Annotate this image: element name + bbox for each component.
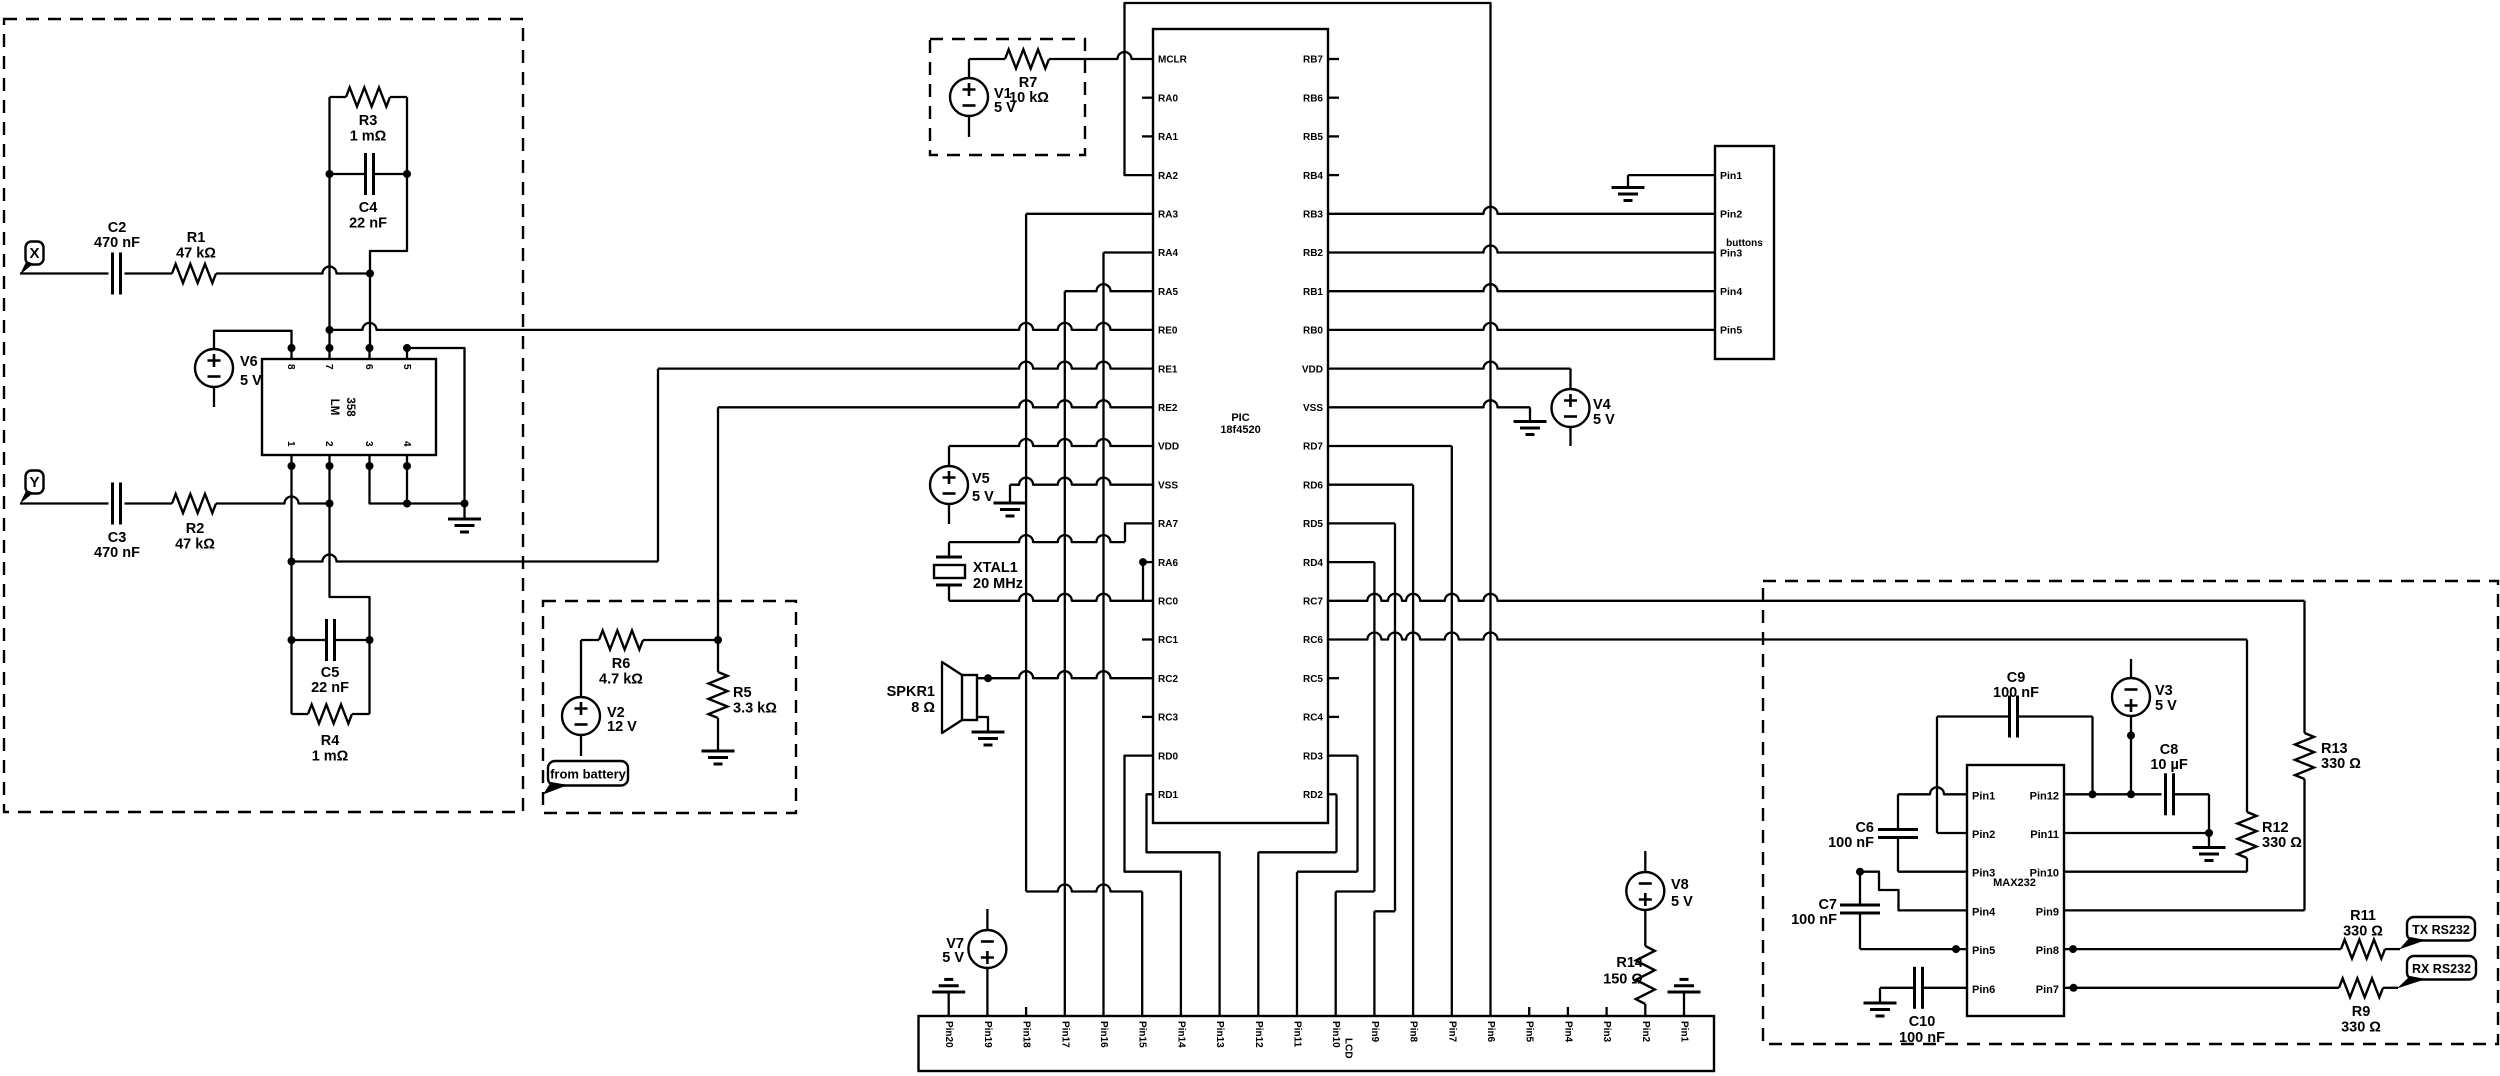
label V3 value [2155, 683, 2177, 714]
wire RD6 to LCD Pin8 [1328, 485, 1413, 1016]
label C3 value [94, 530, 140, 561]
capacitor C2 [113, 253, 121, 295]
svg-text:100 nF: 100 nF [1828, 835, 1874, 851]
svg-text:1 mΩ: 1 mΩ [350, 129, 387, 145]
svg-text:R2: R2 [186, 521, 205, 537]
svg-text:Pin15: Pin15 [1137, 1021, 1148, 1048]
resistor R13 [2295, 733, 2314, 779]
svg-text:Pin19: Pin19 [982, 1021, 993, 1048]
pin label RE2 (left) [1158, 403, 1178, 414]
svg-text:C7: C7 [1818, 897, 1837, 913]
pin label RC0 (left) [1158, 597, 1178, 608]
wire V7 top stub [986, 909, 988, 930]
svg-text:5: 5 [401, 364, 412, 370]
chip U3 MAX232 body [1967, 765, 2064, 1016]
svg-text:RE1: RE1 [1158, 364, 1178, 375]
label buttons [1726, 238, 1763, 249]
pin label LCD Pin5 [1524, 1021, 1535, 1043]
svg-text:RB4: RB4 [1303, 171, 1323, 182]
pin label RC6 (right) [1303, 635, 1323, 646]
op-amp pin 8 stub [285, 344, 296, 370]
label V1 value [994, 86, 1016, 116]
inverted ground LCD Pin20 [932, 979, 965, 1016]
pin label RB0 (right) [1303, 326, 1323, 337]
node RX RS232 flag [2397, 956, 2476, 989]
wire ground rail pins 3,4 [370, 466, 465, 504]
svg-text:RB2: RB2 [1303, 248, 1323, 259]
svg-text:2: 2 [323, 441, 334, 447]
svg-text:R13: R13 [2321, 741, 2348, 757]
pin stub RB7 [1328, 58, 1339, 60]
pin label RC3 (left) [1158, 713, 1178, 724]
wire C3 to R2 [125, 502, 173, 504]
wire RA5 to bus [1065, 284, 1153, 1016]
label LCD [1343, 1038, 1354, 1059]
wire V8 to R14 [1644, 910, 1646, 947]
wire C7 to MAX232 Pin5 [1860, 913, 1967, 949]
pin label LCD Pin11 [1292, 1021, 1303, 1048]
pin label LCD Pin10 [1330, 1021, 1341, 1048]
svg-text:8 Ω: 8 Ω [911, 700, 935, 716]
svg-text:LM: LM [328, 399, 340, 416]
node TX RS232 flag [2399, 917, 2475, 950]
pin label MAX232 Pin1 [1972, 790, 1995, 802]
label V8 value [1671, 877, 1693, 910]
svg-text:RB3: RB3 [1303, 210, 1323, 221]
pin label MAX232 Pin5 [1972, 945, 1995, 957]
wire net RE1 from op-amp pin1 [292, 362, 1154, 562]
junction C9/Pin12 [2089, 790, 2097, 798]
junction R3/C4 left [326, 170, 334, 178]
pin label MCLR (left) [1158, 55, 1188, 66]
speaker SPKR1 [942, 662, 977, 733]
pin label RA2 (left) [1158, 171, 1178, 182]
voltage source V3 [2112, 678, 2150, 716]
svg-text:330 Ω: 330 Ω [2262, 835, 2302, 851]
wire R2 to op-amp pin2 (hops pin1 leg) [216, 497, 330, 504]
pin label RD6 (right) [1303, 480, 1323, 491]
svg-text:PIC: PIC [1231, 412, 1249, 424]
svg-text:Pin12: Pin12 [1253, 1021, 1264, 1048]
svg-text:RD0: RD0 [1158, 751, 1178, 762]
wire V3 to Pin12 row [2130, 716, 2132, 794]
pin label LCD Pin7 [1446, 1021, 1457, 1043]
svg-text:R6: R6 [612, 656, 631, 672]
dashed boundary box (battery sense) [543, 601, 796, 813]
svg-text:5 V: 5 V [1671, 894, 1693, 910]
label R5 value [733, 685, 777, 717]
pin label VSS (left) [1158, 480, 1178, 491]
svg-text:V8: V8 [1671, 877, 1689, 893]
label C10 value [1899, 1014, 1945, 1046]
pin label MAX232 Pin4 [1972, 906, 1996, 918]
wire MAX232 Pin8 to R11 [2064, 948, 2341, 950]
wire C10 to MAX232 Pin6 [1923, 987, 1968, 989]
svg-text:10 kΩ: 10 kΩ [1009, 90, 1049, 106]
junction Pin8 [2069, 945, 2077, 953]
wire op-amp pin5 to ground drop [407, 348, 465, 504]
pin label LCD Pin8 [1408, 1021, 1419, 1043]
wire C7 top leg [1859, 872, 1861, 905]
svg-text:18f4520: 18f4520 [1220, 424, 1260, 436]
pin label RB6 (right) [1303, 93, 1323, 104]
inverted ground LCD Pin1 [1668, 979, 1701, 1016]
svg-text:RC3: RC3 [1158, 713, 1178, 724]
svg-text:10 µF: 10 µF [2150, 757, 2188, 773]
svg-text:V3: V3 [2155, 683, 2173, 699]
svg-text:RB6: RB6 [1303, 93, 1323, 104]
wire R1 to node (hops op-amp pin7 wire) [216, 267, 370, 274]
pin label buttons Pin2 [1720, 209, 1742, 221]
label C6 value [1828, 820, 1874, 851]
voltage source V4 [1552, 389, 1590, 427]
wire VDD-left to V5 [949, 439, 1153, 466]
label R7 value [1009, 75, 1049, 106]
svg-text:RD3: RD3 [1303, 751, 1323, 762]
svg-text:RA3: RA3 [1158, 210, 1178, 221]
label R3 value [350, 113, 387, 145]
resistor R14 [1636, 946, 1655, 1004]
wire buttons Pin1 to ground [1628, 175, 1715, 187]
svg-text:Pin3: Pin3 [1720, 247, 1742, 259]
wire RA6 junction [1139, 558, 1153, 601]
svg-text:5 V: 5 V [240, 373, 262, 389]
capacitor C8 [2166, 773, 2174, 815]
svg-text:C4: C4 [359, 200, 378, 216]
resistor R3 [330, 88, 408, 107]
voltage source V2 [562, 697, 600, 735]
pin label LCD Pin12 [1253, 1021, 1264, 1048]
wire V2 to R6 [581, 640, 599, 697]
wire C7 staircase to Pin4 [1860, 872, 1967, 911]
svg-text:Pin3: Pin3 [1601, 1021, 1612, 1043]
svg-text:20 MHz: 20 MHz [973, 576, 1023, 592]
svg-text:Pin14: Pin14 [1175, 1021, 1186, 1048]
svg-text:RB1: RB1 [1303, 287, 1323, 298]
pin label LCD Pin13 [1214, 1021, 1225, 1048]
wire RB2 to buttons Pin3 [1328, 246, 1715, 253]
pin label LCD Pin17 [1059, 1021, 1070, 1048]
wire X input [20, 272, 109, 274]
label V5 value [972, 471, 994, 505]
svg-text:Pin1: Pin1 [1720, 170, 1742, 182]
svg-text:100 nF: 100 nF [1791, 912, 1837, 928]
svg-text:Pin2: Pin2 [1640, 1021, 1651, 1043]
dashed boundary box (MCLR pull-up) [930, 39, 1085, 155]
svg-text:Pin3: Pin3 [1972, 868, 1995, 880]
svg-text:V4: V4 [1593, 397, 1611, 413]
pin label RC7 (right) [1303, 597, 1323, 608]
voltage source V1 [950, 78, 988, 116]
crystal XTAL1 [934, 557, 965, 585]
pin label RD0 (left) [1158, 751, 1178, 762]
svg-text:Pin8: Pin8 [1408, 1021, 1419, 1043]
wire RD3 to LCD Pin11 [1297, 756, 1358, 1016]
svg-text:Pin6: Pin6 [1485, 1021, 1496, 1043]
svg-text:7: 7 [323, 364, 334, 370]
pin label RB1 (right) [1303, 287, 1323, 298]
svg-text:V6: V6 [240, 354, 258, 370]
wire crystal to RA6/RC0 row [949, 585, 1153, 601]
wire VSS-right to ground [1328, 400, 1530, 421]
pin label VSS (right) [1303, 403, 1323, 414]
pin label MAX232 Pin7 [2036, 984, 2059, 996]
pin label RD4 (right) [1303, 558, 1323, 569]
svg-text:Pin9: Pin9 [1369, 1021, 1380, 1043]
resistor R12 [2238, 812, 2257, 858]
pin label RB4 (right) [1303, 171, 1323, 182]
svg-text:Pin1: Pin1 [1679, 1021, 1690, 1043]
svg-text:V5: V5 [972, 471, 990, 487]
junction R3/C4 right [403, 170, 411, 178]
pin label LCD Pin15 [1137, 1021, 1148, 1048]
wire C8 to ground node [2174, 794, 2210, 833]
label R12 value [2262, 820, 2302, 851]
connector J2 LCD body [919, 1016, 1715, 1071]
svg-text:3: 3 [363, 441, 374, 447]
pin label RD7 (right) [1303, 442, 1323, 453]
svg-text:RC1: RC1 [1158, 635, 1178, 646]
junction Pin11/ground [2205, 829, 2213, 837]
svg-text:R7: R7 [1019, 75, 1038, 91]
label R11 value [2343, 908, 2383, 940]
label C2 value [94, 220, 140, 251]
op-amp pin 7 stub [323, 344, 334, 370]
op-amp pin 3 stub [363, 441, 374, 470]
svg-text:RA2: RA2 [1158, 171, 1178, 182]
svg-text:330 Ω: 330 Ω [2321, 756, 2361, 772]
pin label buttons Pin5 [1720, 325, 1742, 337]
svg-text:4.7 kΩ: 4.7 kΩ [599, 672, 643, 688]
svg-text:C8: C8 [2160, 742, 2179, 758]
pin label MAX232 Pin3 [1972, 868, 1995, 880]
pin label LCD Pin4 [1562, 1021, 1573, 1043]
wire net RC6 to R12 [1328, 633, 2247, 813]
pin stub RC1 [1142, 638, 1153, 640]
pin label RE0 (left) [1158, 326, 1178, 337]
op-amp pin 2 stub [323, 441, 334, 470]
pin label MAX232 Pin12 [2030, 790, 2059, 802]
pin stub LCD Pin3 [1605, 1007, 1607, 1016]
svg-text:RC6: RC6 [1303, 635, 1323, 646]
wire RA4 to bus [1104, 253, 1154, 1017]
label R6 value [599, 656, 643, 688]
svg-text:RC5: RC5 [1303, 674, 1323, 685]
wire RD0 to LCD Pin14 [1125, 756, 1181, 1016]
op-amp pin 5 stub [401, 344, 412, 370]
wire RB3 to buttons Pin2 [1328, 207, 1715, 214]
pin label RD1 (left) [1158, 790, 1178, 801]
pin label RD3 (right) [1303, 751, 1323, 762]
svg-text:TX RS232: TX RS232 [2412, 923, 2470, 937]
svg-text:47 kΩ: 47 kΩ [176, 246, 216, 262]
label PIC name [1220, 412, 1260, 436]
wire V1 to R7 [969, 59, 1005, 78]
svg-text:Pin4: Pin4 [1562, 1021, 1573, 1043]
wire V6 bottom stub [213, 387, 215, 407]
svg-text:RA4: RA4 [1158, 248, 1178, 259]
svg-text:RD7: RD7 [1303, 442, 1323, 453]
label XTAL1 value [973, 560, 1023, 592]
wire V7 to LCD Pin19 [986, 968, 988, 1016]
pin label MAX232 Pin2 [1972, 829, 1995, 841]
pin label LCD Pin2 [1640, 1021, 1651, 1043]
resistor R9 [2339, 978, 2383, 997]
pin label LCD Pin19 [982, 1021, 993, 1048]
pin label RD5 (right) [1303, 519, 1323, 530]
dashed boundary box (RS232 interface) [1763, 581, 2498, 1044]
wire R3 right leg [406, 97, 408, 174]
wire RA3 bus to LCD Pin15 [1026, 885, 1142, 1017]
svg-text:R11: R11 [2350, 908, 2376, 924]
label C9 value [1993, 670, 2039, 701]
pin label buttons Pin4 [1720, 286, 1742, 298]
ground speaker [972, 732, 1005, 745]
pin label LCD Pin6 [1485, 1021, 1496, 1043]
label SPKR1 value [887, 684, 936, 716]
capacitor C3 [113, 483, 121, 525]
svg-text:RD4: RD4 [1303, 558, 1323, 569]
svg-text:X: X [29, 245, 39, 262]
label C5 value [311, 665, 349, 696]
label R9 value [2341, 1004, 2381, 1036]
pin label RB7 (right) [1303, 55, 1323, 66]
pin label VDD (left) [1158, 442, 1179, 453]
op-amp pin 6 stub [363, 344, 374, 370]
wire op-amp pin7 to R3/C4 left [328, 174, 330, 348]
wire R3 left leg [328, 97, 330, 174]
svg-text:R1: R1 [187, 230, 206, 246]
svg-text:12 V: 12 V [607, 719, 637, 735]
svg-text:RA0: RA0 [1158, 93, 1178, 104]
pin label RA0 (left) [1158, 93, 1178, 104]
resistor R4 [292, 705, 370, 724]
pin label RC4 (right) [1303, 713, 1323, 724]
svg-text:R12: R12 [2262, 820, 2289, 836]
wire R9 to RX flag [2383, 987, 2398, 989]
pin label RB3 (right) [1303, 210, 1323, 221]
junction V3 lower [2127, 732, 2135, 740]
wire op-amp pin2 down to C5 right [330, 466, 370, 640]
svg-text:RA6: RA6 [1158, 558, 1178, 569]
svg-text:Pin12: Pin12 [2030, 790, 2059, 802]
pin stub LCD Pin5 [1528, 1007, 1530, 1016]
svg-text:R5: R5 [733, 685, 752, 701]
pin label RB2 (right) [1303, 248, 1323, 259]
label R2 value [175, 521, 215, 553]
svg-text:MCLR: MCLR [1158, 55, 1188, 66]
label R14 value [1603, 955, 1643, 988]
capacitor C9 [2010, 696, 2018, 738]
node from-battery flag [543, 761, 628, 795]
wire V8 top stub [1644, 851, 1646, 873]
svg-text:Pin11: Pin11 [1292, 1021, 1303, 1048]
svg-text:Pin9: Pin9 [2036, 906, 2059, 918]
svg-text:RB7: RB7 [1303, 55, 1323, 66]
pin label MAX232 Pin9 [2036, 906, 2059, 918]
wire RD2 to LCD Pin12 [1258, 794, 1336, 1016]
svg-text:RB0: RB0 [1303, 326, 1323, 337]
pin stub RC5 [1328, 677, 1339, 679]
label V4 value [1593, 397, 1615, 428]
pin label LCD Pin20 [943, 1021, 954, 1048]
pin stub RB5 [1328, 135, 1339, 137]
svg-text:XTAL1: XTAL1 [973, 560, 1018, 576]
junction Pin5 [1952, 945, 1960, 953]
svg-text:R14: R14 [1616, 955, 1643, 971]
chip U2 PIC18f4520 body [1153, 29, 1328, 823]
wire C9 to Pin12 node [2018, 717, 2093, 795]
svg-text:RE0: RE0 [1158, 326, 1178, 337]
svg-text:330 Ω: 330 Ω [2343, 924, 2383, 940]
pin label RD2 (right) [1303, 790, 1323, 801]
svg-text:Pin2: Pin2 [1972, 829, 1995, 841]
junction C5 right [366, 636, 374, 644]
capacitor C7 [1840, 905, 1880, 913]
wire R7 to MCLR (hops loop) [1049, 52, 1153, 59]
capacitor C5 [292, 619, 370, 661]
junction speaker [984, 674, 992, 682]
label C7 value [1791, 897, 1837, 928]
svg-text:47 kΩ: 47 kΩ [175, 537, 215, 553]
voltage source V8 [1626, 872, 1664, 910]
wire R6 to node [643, 639, 718, 641]
label R1 value [176, 230, 216, 262]
junction rail corner [461, 500, 469, 508]
wire speaker to RC2 [977, 671, 1153, 678]
svg-text:Pin4: Pin4 [1720, 286, 1742, 298]
svg-text:RC2: RC2 [1158, 674, 1178, 685]
pin stub RB4 [1328, 174, 1339, 176]
label R13 value [2321, 741, 2361, 772]
ground op-amp rail [448, 504, 481, 533]
wire V6 to op-amp pin8 [214, 331, 292, 349]
svg-text:1: 1 [285, 441, 296, 447]
wire RA2 loop to LCD Pin6 [1125, 3, 1491, 1016]
svg-text:RC7: RC7 [1303, 597, 1323, 608]
pin stub LCD Pin18 [1025, 1007, 1027, 1016]
svg-text:Pin16: Pin16 [1098, 1021, 1109, 1048]
svg-text:RD1: RD1 [1158, 790, 1178, 801]
wire RD5 to LCD Pin9 [1328, 523, 1395, 1016]
node X input flag [20, 242, 44, 275]
pin stub RC4 [1328, 716, 1339, 718]
wire node X to op-amp pin6 [369, 274, 371, 349]
wire net RC7 to R13 [1328, 594, 2305, 733]
svg-text:RX RS232: RX RS232 [2412, 962, 2471, 976]
wire R12 to MAX232 Pin10 [2064, 858, 2247, 872]
pin label LCD Pin9 [1369, 1021, 1380, 1043]
ground C10 [1864, 1003, 1897, 1016]
svg-text:RB5: RB5 [1303, 132, 1323, 143]
svg-text:C6: C6 [1855, 820, 1874, 836]
wire MAX232 Pin1 to C6 (hops C9 leg) [1898, 787, 1967, 829]
pin label RC5 (right) [1303, 674, 1323, 685]
label C4 value [349, 200, 387, 232]
svg-text:R9: R9 [2352, 1004, 2371, 1020]
resistor R5 [709, 672, 728, 718]
svg-text:VSS: VSS [1158, 480, 1178, 491]
junction RE0 start [326, 326, 334, 334]
wire RB0 to buttons Pin5 [1328, 323, 1715, 330]
pin label MAX232 Pin6 [1972, 984, 1995, 996]
svg-text:from battery: from battery [550, 766, 627, 781]
wire speaker to ground [977, 717, 988, 732]
svg-text:470 nF: 470 nF [94, 235, 140, 251]
svg-text:Pin6: Pin6 [1972, 984, 1995, 996]
svg-text:Pin1: Pin1 [1972, 790, 1995, 802]
svg-text:C2: C2 [108, 220, 127, 236]
